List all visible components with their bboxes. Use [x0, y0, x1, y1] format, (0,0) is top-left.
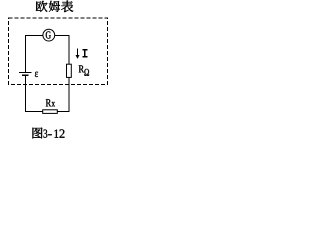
current arrow shaft — [77, 48, 79, 55]
wire top side — [25, 35, 70, 37]
galvanometer letter G — [46, 31, 51, 38]
label Ω subscript — [84, 69, 89, 76]
galvanometer circle — [43, 29, 55, 41]
label x subscript — [52, 102, 56, 106]
current label I — [82, 49, 87, 58]
caption char 图 — [33, 128, 43, 139]
title char 姆 — [49, 1, 60, 12]
wire left side lower (battery to bottom corner) — [25, 76, 27, 112]
caption hyphen — [48, 133, 52, 136]
battery short thick plate — [22, 75, 29, 77]
label R of RΩ — [79, 65, 84, 72]
title char 表 — [61, 0, 73, 12]
battery emf label ε — [35, 72, 38, 77]
wire bottom side — [25, 111, 70, 113]
background — [0, 0, 118, 144]
wire right side — [68, 36, 70, 113]
label R of Rx — [46, 99, 51, 106]
caption digit 1 — [54, 130, 58, 138]
resistor Rx box — [43, 110, 58, 114]
title char 欧 — [36, 1, 48, 12]
caption digit 2 — [60, 129, 65, 137]
resistor RΩ box — [67, 64, 72, 77]
caption digit 3 — [44, 130, 48, 138]
current arrow head — [76, 55, 80, 59]
wire left side upper (to battery) — [25, 36, 27, 73]
ohmmeter dashed boundary box — [9, 18, 108, 85]
battery long plate — [19, 72, 32, 74]
